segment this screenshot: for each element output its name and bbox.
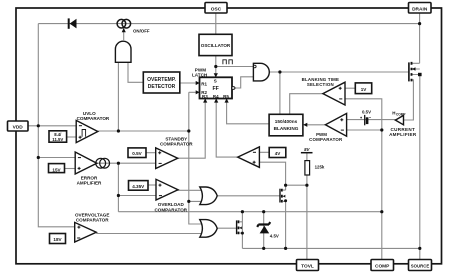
8V supply [301,147,313,153]
zener diode 4.5V [257,222,279,239]
wire: UVLO comparator output to AND input and R2 vertical [98,62,205,224]
node: COMP rail left [241,210,244,213]
wire: overload comparator output to OR1 [177,189,204,191]
AND gate U4 driver [253,63,269,81]
arrowhead into FF R3 [203,98,207,102]
svg-text:OVERTEMP.: OVERTEMP. [147,77,176,83]
wire: 0.5V reference to standby comparator [146,152,157,154]
node: zener bottom [262,247,265,250]
wire: 4.35V reference to overload comparator [148,184,157,186]
arrowhead into FF R2 [196,90,200,94]
node: drain [418,22,421,25]
arrowhead into FF R4 [214,98,218,102]
pin OSC [205,3,227,14]
wire: 1V reference to blanking time selection [345,87,355,89]
pin SOURCE [409,260,432,271]
wire: 4V comparator output to FF R4 [216,100,238,158]
overload comparator U8 [154,179,187,212]
OR gate U10 [200,187,217,205]
wire: 8V supply through 125k resistor to TOVL pin [286,153,307,260]
wire: error amp output down to overload comparator and COMP line [118,163,381,212]
svg-text:4.35V: 4.35V [132,184,145,189]
15V reference box [49,164,65,173]
node: gate drive [278,70,281,73]
node: zener top [262,210,265,213]
svg-text:R1: R1 [201,82,207,87]
wire: overtemp detector output to FF R1 [180,82,196,84]
node: MOSFET source [418,73,422,76]
wire: COMP net vertical with blanking and PWM comparator taps [345,99,382,260]
node: oscillator clock [214,65,217,68]
wire: OSC pin to oscillator to FF S and AND gate [216,13,254,76]
svg-text:S: S [214,78,217,83]
resistor 125k [305,161,325,175]
COMP pulldown MOSFET Q3 [237,220,244,234]
svg-text:4.5V: 4.5V [270,234,279,239]
clock waveform glyph [223,60,232,64]
node: source rail right [418,247,421,250]
svg-text:COMPARATOR: COMPARATOR [154,207,187,212]
node: overload comparator tap [117,194,120,197]
battery 0.5V offset [360,110,371,126]
wire: UVLO AND gate second input from overtemp detector [128,62,143,82]
svg-text:DETECTOR: DETECTOR [148,84,176,90]
node: resistor bottom [305,184,308,187]
svg-text:1V: 1V [361,87,368,92]
diode D1 startup [69,18,77,28]
svg-text:18V: 18V [53,237,62,242]
svg-text:DRAIN: DRAIN [412,6,428,12]
AND gate U2 (uvlo/overtemp enable) [115,28,131,62]
svg-text:8V: 8V [304,147,310,152]
wire: driver AND output to power MOSFET gate and blanking block [269,72,408,114]
wire: OR2 output to COMP pulldown MOSFET gate [217,227,236,229]
svg-text:TOVL: TOVL [301,264,314,270]
error amplifier U6 [75,152,109,186]
svg-text:BLANKING: BLANKING [274,126,299,131]
svg-text:COMPARATOR: COMPARATOR [76,218,109,223]
svg-text:4V: 4V [275,151,282,156]
0.5V reference box [128,148,146,158]
svg-text:COMP: COMP [375,264,390,270]
overtemp detector block [143,72,180,93]
UVLO comparator U5 [76,111,110,143]
svg-text:150/400ns: 150/400ns [275,119,298,124]
svg-text:ON/OFF: ON/OFF [133,29,150,34]
PWM latch FF U3 [192,67,235,99]
svg-text:SELECTION: SELECTION [307,82,334,87]
svg-text:0.5V: 0.5V [132,151,142,156]
blanking time selection comparator U13 [302,77,345,105]
wire: PWM comparator output into blanking block [306,124,325,126]
wire: blanking time selection output into blanking block [290,94,323,115]
overvoltage comparator U9 [75,213,110,242]
svg-text:COMP: COMP [396,113,406,117]
on/off switch symbol [117,19,150,33]
wire: VDD box to UVLO inverting input [28,125,77,127]
current amplifier U15 [389,110,417,137]
svg-text:COMPARATOR: COMPARATOR [160,141,193,146]
overload-timer MOSFET Q2 [280,189,287,203]
svg-text:COMPARATOR: COMPARATOR [77,116,110,121]
wire: current amplifier through 0.5V offset to PWM comparator [347,119,396,121]
wire: power MOSFET source to SOURCE pin and bottom rail [242,69,419,260]
PWM comparator U14 [309,113,346,142]
wire: 15V reference to error amp [65,168,77,170]
wire: 8.4/11.5V reference to UVLO non-inverting input [67,136,77,138]
svg-text:R5: R5 [223,94,229,99]
svg-text:PWM: PWM [316,132,327,137]
svg-text:125k: 125k [315,164,325,169]
node: UVLO out to AND [117,129,120,132]
arrowhead into FF R1 [196,81,200,85]
node: VDD junction [37,124,40,127]
wire: zener branch [263,212,265,249]
wire: 4V comparator inputs [259,152,285,185]
svg-text:OSCILLATOR: OSCILLATOR [201,43,231,48]
1V reference box [355,83,371,94]
wire: sense source to current amplifier input [403,80,413,120]
svg-text:SOURCE: SOURCE [411,263,430,268]
svg-text:LATCH: LATCH [192,72,208,77]
svg-text:OSC: OSC [211,6,222,12]
svg-text:FF: FF [213,86,219,92]
node: VDD sense to error amp [37,156,40,159]
4V comparator U12 [238,147,260,168]
wire: overvoltage comparator output to OR2 [96,233,204,235]
svg-text:AMPLIFIER: AMPLIFIER [77,181,102,186]
wire: standby comparator output to FF R3 [178,100,206,159]
pin TOVL [297,260,319,271]
18V reference box [50,234,66,244]
pin VDD [8,121,29,131]
4V reference box [269,148,286,158]
arrowhead PWM comparator into blanking block [303,123,307,127]
node: UVLO out to R2 riser [187,129,190,132]
svg-text:ERROR: ERROR [81,175,98,180]
svg-text:AMPLIFIER: AMPLIFIER [389,132,417,137]
arrowhead into FF R5 [225,98,229,102]
svg-text:COMPARATOR: COMPARATOR [309,137,343,142]
blanking block 150/400ns [269,114,303,136]
svg-text:0.5V: 0.5V [362,110,371,115]
8.4/11.5V reference box [49,131,67,142]
node: COMP pin riser [380,210,383,213]
svg-text:11.5V: 11.5V [52,137,63,142]
node: PWM comparator inverting tap [380,128,383,131]
wire: VDD sense vertical to error amp and overvoltage comparator [38,126,76,227]
4.35V reference box [129,181,149,191]
wire: VDD startup rail (VDD up-left, across top to drain node) [38,24,419,126]
svg-text:15V: 15V [52,167,61,172]
power sense MOSFET Q1 [409,62,416,82]
node: OR1 input tap [187,200,190,203]
wire: OR1 output to overload-timer MOSFET gate [217,195,279,197]
pin COMP [371,260,394,271]
oscillator block [199,34,232,55]
wire: COMP pulldown MOSFET drain and source [241,212,243,249]
OR gate U11 [200,220,217,238]
svg-text:R4: R4 [213,94,219,99]
arrowhead into FF S [214,73,218,77]
wire: blanking block output to FF R5 [227,100,270,124]
node: Q2 source rail [284,247,287,250]
node: TOVL timing [284,184,287,187]
wire: FF inverted output to driver AND gate [235,77,254,88]
node: error amp output [117,162,120,165]
wire: DRAIN pin to power MOSFET drain [412,13,420,63]
wire: error amplifier output to standby comparator [97,162,157,164]
standby comparator U7 [156,136,194,168]
pin DRAIN [409,3,432,14]
wire: overload-timer MOSFET source to rail [285,185,287,248]
svg-text:R3: R3 [202,94,208,99]
svg-text:VDD: VDD [13,125,24,131]
